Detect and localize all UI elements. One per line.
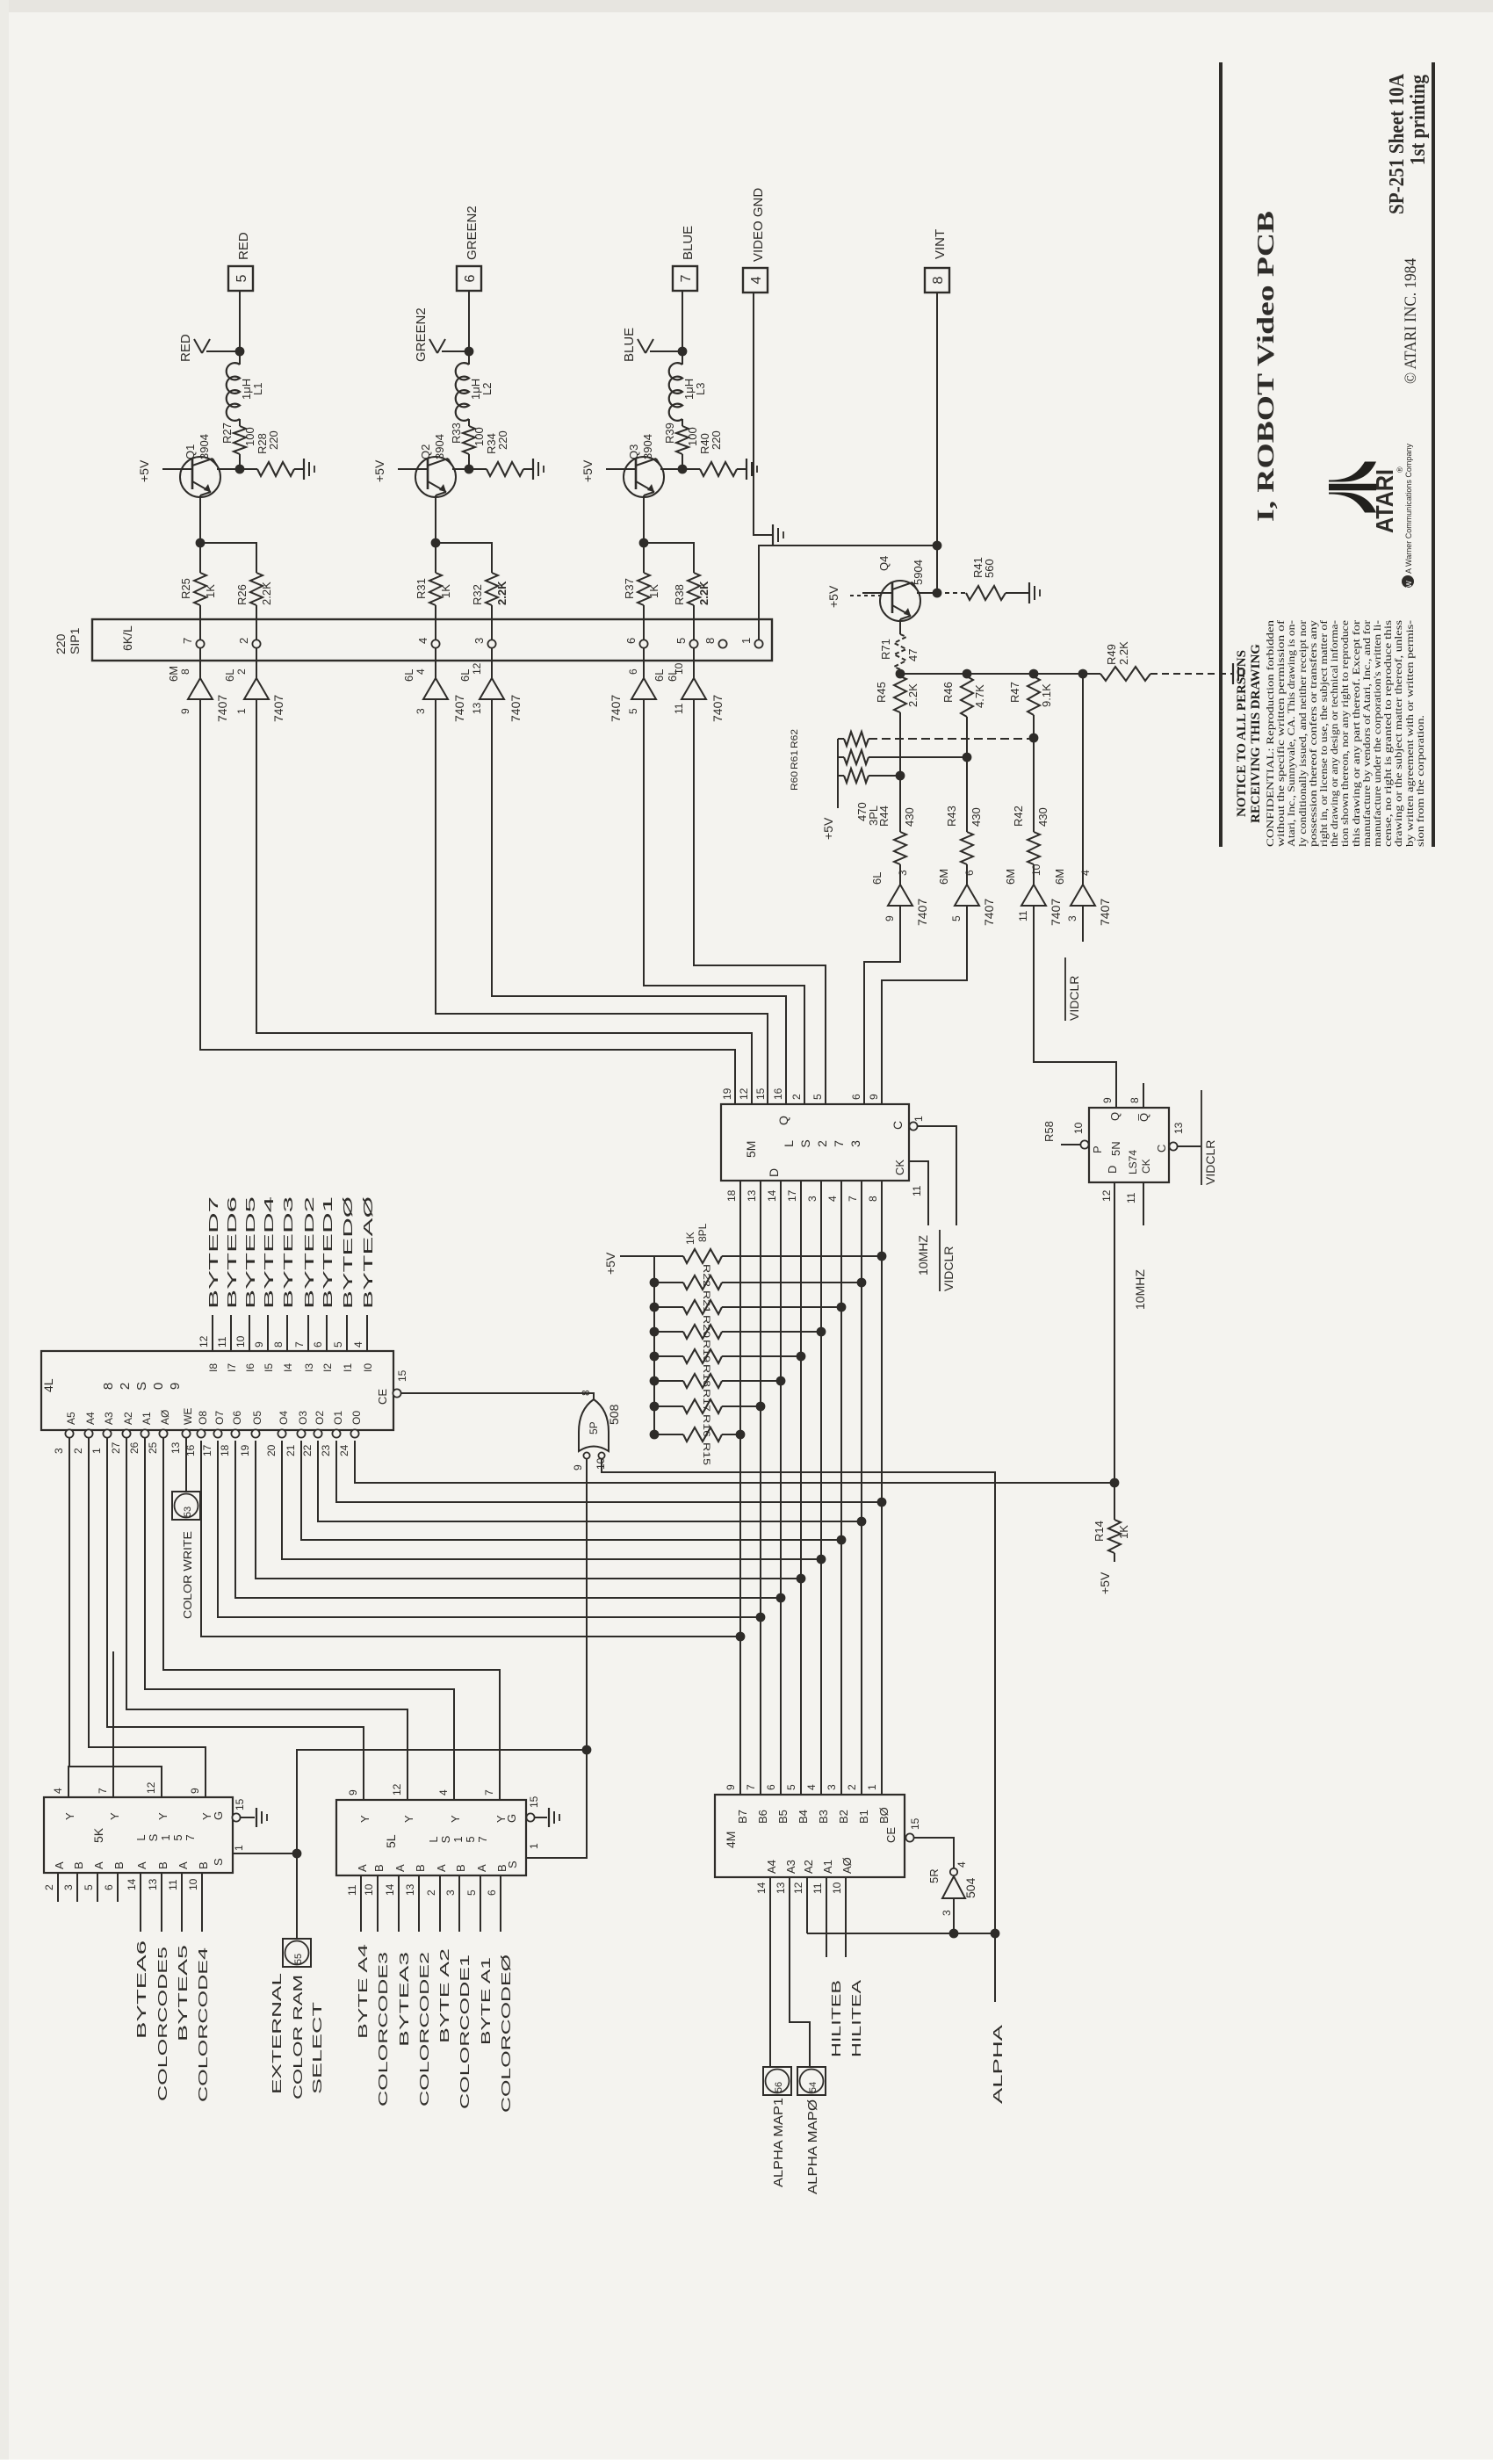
svg-text:5904: 5904	[912, 560, 925, 585]
svg-text:1K: 1K	[204, 584, 217, 598]
resistor R39 100	[682, 419, 683, 426]
svg-text:BYTED6: BYTED6	[225, 1196, 240, 1309]
svg-text:R39: R39	[663, 423, 676, 444]
svg-text:8: 8	[931, 276, 946, 284]
pin 16 82S09 output	[197, 1429, 205, 1437]
svg-text:15: 15	[909, 1817, 921, 1830]
svg-text:D: D	[767, 1168, 781, 1177]
svg-text:10: 10	[831, 1882, 843, 1894]
wire R15 to data line	[722, 1434, 740, 1435]
svg-text:R49: R49	[1105, 644, 1118, 665]
multiplexer 5K LS157	[44, 1797, 233, 1873]
svg-text:24: 24	[338, 1444, 350, 1456]
buffer 6L 7407 (pins 10/11)	[693, 661, 695, 678]
wire +5V bus	[653, 1256, 655, 1434]
connector box 5 (RED)	[228, 266, 253, 291]
svg-text:100: 100	[243, 427, 256, 446]
wire 82S09 pin 20 data line	[282, 1441, 821, 1559]
svg-text:2: 2	[790, 1094, 803, 1100]
svg-text:manufacture under the corporat: manufacture under the corporation's writ…	[1373, 620, 1383, 847]
wire A3 to 5L Y9	[107, 1438, 364, 1800]
svg-text:8: 8	[272, 1341, 285, 1348]
wire HILITEB	[826, 1877, 827, 1957]
svg-text:7: 7	[181, 638, 194, 644]
svg-text:5: 5	[811, 1094, 824, 1100]
svg-text:without the specific writte: without the specific written permission …	[1276, 620, 1287, 847]
svg-text:4L: 4L	[41, 1378, 55, 1392]
svg-text:12: 12	[145, 1781, 157, 1794]
svg-text:12: 12	[1100, 1189, 1113, 1202]
svg-text:O5: O5	[251, 1411, 263, 1425]
buffer 6M 7407 (pins 4/3)	[1071, 885, 1095, 906]
wire A4 to 5K Y9	[89, 1438, 206, 1797]
node rail R46	[963, 669, 972, 679]
pin 21 82S09 output	[297, 1429, 305, 1437]
svg-text:3: 3	[806, 1196, 819, 1202]
wire 6M input to LS273 pin	[200, 699, 735, 1104]
svg-text:R37: R37	[623, 578, 636, 599]
svg-text:A5: A5	[65, 1412, 77, 1425]
svg-text:A: A	[92, 1861, 105, 1869]
wire 6L input to LS273 pin	[492, 699, 786, 1104]
svg-text:1: 1	[159, 1834, 172, 1840]
svg-text:6: 6	[963, 870, 976, 876]
svg-text:7: 7	[184, 1834, 197, 1840]
buffer 6M 7407 (pins 6/5)	[955, 885, 979, 906]
svg-text:7: 7	[745, 1784, 757, 1790]
svg-text:23: 23	[320, 1444, 332, 1456]
svg-text:O2: O2	[314, 1411, 326, 1425]
svg-text:COLORCODEØ: COLORCODEØ	[499, 1954, 514, 2113]
svg-text:Y: Y	[108, 1812, 121, 1820]
svg-text:1K: 1K	[439, 584, 452, 598]
svg-text:13: 13	[404, 1883, 416, 1896]
svg-text:S: S	[147, 1833, 160, 1841]
svg-text:14: 14	[766, 1189, 778, 1202]
svg-text:B3: B3	[817, 1810, 830, 1824]
svg-text:S: S	[134, 1382, 149, 1391]
svg-text:B1: B1	[857, 1810, 870, 1824]
svg-text:10: 10	[1030, 863, 1042, 876]
svg-text:8: 8	[867, 1196, 879, 1202]
net label VIDCLR	[939, 1230, 941, 1291]
ground	[1232, 663, 1234, 684]
wire R22 to data line	[722, 1255, 882, 1257]
wire 508 out to CE	[401, 1393, 594, 1399]
svg-text:17: 17	[786, 1189, 798, 1202]
wire rail to 6M pin4	[1082, 674, 1084, 885]
svg-text:14: 14	[126, 1878, 138, 1890]
svg-text:Y: Y	[63, 1812, 76, 1820]
pin 26 82S09 A1	[141, 1429, 148, 1437]
svg-text:12: 12	[391, 1783, 403, 1796]
svg-text:3: 3	[472, 638, 486, 644]
wire 82S09 pin 19 data line	[256, 1441, 801, 1579]
resistor R20 1K	[650, 1303, 660, 1312]
wire 6L input to LS273 pin	[436, 699, 768, 1104]
svg-text:Q: Q	[1108, 1112, 1122, 1121]
svg-text:6L: 6L	[653, 669, 666, 682]
svg-text:Q4: Q4	[877, 556, 891, 571]
svg-text:7: 7	[679, 274, 694, 282]
svg-text:5L: 5L	[384, 1834, 398, 1848]
svg-text:R38: R38	[673, 584, 686, 605]
svg-text:5M: 5M	[744, 1141, 758, 1158]
svg-text:L2: L2	[480, 383, 494, 395]
node 504 input	[949, 1929, 959, 1939]
resistor R33 100	[468, 419, 470, 426]
svg-text:11: 11	[346, 1884, 358, 1896]
svg-text:HILITEA: HILITEA	[849, 1980, 864, 2057]
resistor R25 1K	[199, 543, 201, 573]
PROM 4M	[715, 1795, 905, 1877]
svg-text:+5V: +5V	[603, 1252, 617, 1275]
resistor R17 1K	[650, 1377, 660, 1386]
svg-text:SIP1: SIP1	[68, 627, 82, 654]
node select	[582, 1745, 592, 1755]
svg-text:S: S	[506, 1861, 519, 1868]
svg-text:18: 18	[219, 1444, 231, 1456]
pin 2 82S09 A4	[84, 1429, 92, 1437]
svg-text:100: 100	[686, 427, 699, 446]
pin 8 82S09 I4 (BYTED3)	[286, 1315, 288, 1351]
svg-text:I0: I0	[362, 1363, 374, 1372]
svg-text:1: 1	[233, 1845, 245, 1851]
wire 82S09 pin 24 data line	[355, 1441, 1114, 1483]
pin 12 82S09 I8 (BYTED7)	[212, 1315, 213, 1351]
svg-text:560: 560	[983, 559, 996, 578]
svg-text:BYTEA6: BYTEA6	[134, 1940, 149, 2039]
pad 56 ALPHA MAP1	[763, 2067, 791, 2095]
svg-text:SELECT: SELECT	[310, 2002, 325, 2094]
svg-text:R25: R25	[179, 578, 192, 599]
wire R21 to data line	[722, 1282, 862, 1283]
node RED	[235, 347, 245, 357]
pin 1 82S09 A3	[103, 1429, 111, 1437]
svg-text:I5: I5	[263, 1363, 275, 1372]
transistor Q2 3904	[415, 457, 456, 497]
resistor R60	[844, 769, 869, 783]
svg-text:ALPHA MAP1: ALPHA MAP1	[771, 2098, 786, 2187]
wire 504 input	[953, 1898, 955, 1933]
svg-text:6K/L: 6K/L	[120, 625, 134, 651]
svg-text:3: 3	[444, 1890, 457, 1896]
svg-text:B5: B5	[776, 1810, 790, 1824]
pin 7 SIP1	[196, 639, 204, 647]
wire CLR to VIDCLR	[918, 1126, 956, 1225]
pin 20 82S09 output	[278, 1429, 285, 1437]
multiplexer 5L LS157	[336, 1800, 526, 1875]
svg-text:18: 18	[725, 1189, 738, 1202]
svg-text:2: 2	[235, 668, 248, 675]
svg-text:A: A	[435, 1864, 448, 1872]
wire 508 pin10 ALPHA	[602, 1459, 995, 2002]
svg-text:W: W	[1405, 581, 1413, 588]
svg-text:BYTED3: BYTED3	[281, 1196, 296, 1309]
wire A1 to 5L Y4	[145, 1438, 454, 1800]
svg-text:manufacture by vendors of Atar: manufacture by vendors of Atari, Inc., a…	[1362, 620, 1373, 847]
wire R16 to data line	[722, 1405, 761, 1407]
pin 11 82S09 I7 (BYTED6)	[230, 1315, 232, 1351]
svg-text:1: 1	[235, 708, 248, 714]
svg-text:5: 5	[464, 1836, 477, 1842]
wire 6M pin3 VIDCLR stub	[1082, 906, 1084, 942]
svg-text:9: 9	[572, 1464, 584, 1470]
transistor Q4 5904	[880, 581, 920, 621]
svg-text:6L: 6L	[870, 872, 884, 885]
svg-text:R62: R62	[790, 729, 800, 748]
pin 2 SIP1	[252, 639, 260, 647]
svg-text:CE: CE	[376, 1389, 389, 1405]
svg-text:A4: A4	[765, 1860, 778, 1874]
node Q3 emitter	[639, 538, 649, 548]
svg-text:BYTE A2: BYTE A2	[437, 1948, 452, 2043]
resistor R43 430	[966, 757, 968, 832]
pin 24 82S09 output	[350, 1429, 358, 1437]
svg-text:1K: 1K	[1117, 1525, 1130, 1539]
svg-text:7: 7	[483, 1789, 495, 1796]
svg-text:L3: L3	[694, 383, 707, 395]
svg-text:BYTEDØ: BYTEDØ	[341, 1196, 356, 1309]
svg-text:11: 11	[911, 1185, 923, 1196]
svg-text:9: 9	[884, 915, 896, 921]
pin 15 82S09 CE	[393, 1389, 400, 1397]
svg-text:9: 9	[1101, 1097, 1114, 1103]
svg-text:8: 8	[179, 668, 191, 675]
svg-text:AØ: AØ	[840, 1857, 854, 1874]
svg-text:Q̅: Q̅	[1137, 1113, 1150, 1122]
wire R17 to data line	[722, 1380, 781, 1382]
svg-text:7407: 7407	[1098, 899, 1112, 926]
node R60 junction	[896, 771, 905, 781]
svg-text:ly conditionally issued, and n: ly conditionally issued, and neither rec…	[1298, 620, 1309, 847]
svg-text:220: 220	[496, 430, 509, 450]
resistor R28 220	[257, 462, 294, 476]
svg-text:O0: O0	[350, 1411, 363, 1425]
ground	[1028, 582, 1030, 603]
svg-text:7: 7	[476, 1836, 489, 1842]
pin 8 LS273 / data bus vertical	[881, 1181, 883, 1795]
svg-text:5N: 5N	[1109, 1141, 1122, 1156]
svg-text:2.2K: 2.2K	[260, 582, 273, 605]
svg-text:1: 1	[528, 1843, 540, 1849]
svg-text:R14: R14	[1093, 1521, 1106, 1542]
svg-text:3: 3	[848, 1140, 862, 1147]
buffer 6M 7407 (pins 10/11)	[1021, 885, 1046, 906]
svg-text:7407: 7407	[508, 695, 523, 722]
pin 5 82S09 I1 (BYTEDØ)	[346, 1315, 348, 1351]
svg-text:Q3: Q3	[627, 444, 640, 459]
svg-text:6L: 6L	[402, 669, 415, 682]
pin 8 SIP1	[718, 639, 726, 647]
svg-text:6M: 6M	[1053, 869, 1066, 885]
node Q4 collector	[933, 589, 942, 598]
resistor R41 560	[937, 592, 966, 594]
svg-text:C: C	[1155, 1145, 1168, 1153]
svg-text:A: A	[135, 1861, 148, 1869]
svg-text:430: 430	[903, 807, 916, 827]
transistor Q1 3904	[180, 457, 220, 497]
svg-text:VIDCLR: VIDCLR	[1203, 1140, 1217, 1185]
svg-text:SP-251 Sheet 10A: SP-251 Sheet 10A	[1386, 73, 1409, 214]
svg-text:2: 2	[846, 1784, 858, 1790]
signal arrow RED	[206, 350, 240, 352]
svg-text:I1: I1	[342, 1363, 354, 1372]
wire RED output	[239, 291, 241, 351]
resistor R40 220	[700, 462, 737, 476]
svg-text:B4: B4	[797, 1810, 810, 1824]
resistor R34 220	[487, 462, 523, 476]
svg-text:6M: 6M	[937, 869, 950, 885]
svg-text:CE: CE	[884, 1827, 898, 1843]
svg-text:+5V: +5V	[821, 817, 835, 840]
wire CK to 10MHZ	[909, 1161, 928, 1225]
svg-text:BØ: BØ	[877, 1807, 891, 1824]
svg-text:2: 2	[815, 1140, 829, 1147]
svg-text:7407: 7407	[609, 695, 623, 722]
svg-text:3904: 3904	[641, 434, 654, 459]
wire 82S09 pin 21 data line	[301, 1441, 841, 1540]
pin 7 82S09 I3 (BYTED2)	[307, 1315, 309, 1351]
RAM 4L 82S09	[41, 1351, 393, 1430]
svg-text:BYTEAØ: BYTEAØ	[361, 1196, 376, 1309]
svg-text:RED: RED	[178, 334, 193, 362]
wire 6M pin5 to LS273 pin9	[882, 906, 967, 1104]
svg-text:Y: Y	[156, 1812, 169, 1820]
svg-text:R45: R45	[875, 682, 888, 703]
svg-text:BYTE A1: BYTE A1	[479, 1957, 494, 2045]
svg-text:+5V: +5V	[1098, 1572, 1112, 1594]
svg-text:A: A	[177, 1861, 190, 1869]
pin 10 LS74 P / R58	[1080, 1140, 1088, 1148]
svg-text:7: 7	[97, 1788, 109, 1794]
gate 5P 508	[579, 1399, 609, 1451]
pin 13 LS273 / data bus vertical	[760, 1181, 761, 1795]
svg-text:L: L	[782, 1140, 796, 1147]
pin 18 82S09 output	[231, 1429, 239, 1437]
resistor R47 9.1K	[1028, 676, 1040, 715]
svg-text:9: 9	[168, 1383, 183, 1390]
node Q1 collector	[235, 465, 245, 474]
node R61 junction	[963, 753, 972, 762]
svg-text:6L: 6L	[458, 669, 472, 682]
svg-text:25: 25	[147, 1442, 159, 1454]
svg-text:possession thereof confers: possession thereof confers or transfers …	[1309, 619, 1319, 847]
svg-text:15: 15	[754, 1087, 767, 1100]
pin 6 SIP1	[639, 639, 647, 647]
inductor L1 1uH	[239, 351, 241, 365]
svg-text:BYTEA3: BYTEA3	[397, 1952, 412, 2047]
svg-text:BYTE A4: BYTE A4	[356, 1944, 371, 2039]
inductor L3 1uH	[682, 351, 683, 365]
svg-text:R71: R71	[879, 639, 892, 660]
buffer 6L 7407 (pins 12/13)	[491, 661, 493, 678]
net label VIDCLR	[1064, 957, 1066, 1021]
wire select to 5K S	[233, 1853, 297, 1854]
svg-text:RECEIVING THIS DRAWING: RECEIVING THIS DRAWING	[1249, 644, 1263, 823]
pin 22 82S09 output	[314, 1429, 321, 1437]
wire A5 jog to 5K Y12	[69, 1767, 162, 1797]
svg-text:5R: 5R	[927, 1868, 941, 1883]
buffer 6L 7407 (pins 2/1)	[256, 661, 257, 678]
svg-text:© ATARI INC. 1984: © ATARI INC. 1984	[1402, 258, 1420, 384]
svg-text:6L: 6L	[223, 669, 236, 682]
wire HILITEA	[845, 1877, 847, 1957]
wire 6M pin11 to LS74 pin9	[1034, 906, 1116, 1108]
node rail R45	[896, 669, 905, 679]
svg-text:4.7K: 4.7K	[973, 684, 986, 708]
svg-text:LS74: LS74	[1127, 1150, 1139, 1174]
wire VINT	[936, 293, 938, 593]
svg-text:1: 1	[912, 1116, 925, 1122]
resistor R62	[844, 732, 869, 746]
svg-text:R27: R27	[220, 423, 234, 444]
node GREEN2	[465, 347, 474, 357]
svg-text:A3: A3	[784, 1860, 797, 1874]
svg-text:Q: Q	[776, 1116, 790, 1125]
svg-text:BYTEA5: BYTEA5	[176, 1945, 191, 2041]
svg-text:EXTERNAL: EXTERNAL	[270, 1973, 285, 2094]
svg-text:B: B	[414, 1864, 427, 1872]
inverter 5R 504	[942, 1876, 965, 1898]
svg-text:21: 21	[285, 1444, 297, 1456]
resistor R19 1K	[650, 1327, 660, 1337]
svg-text:16: 16	[772, 1087, 784, 1100]
svg-text:B: B	[372, 1864, 386, 1872]
svg-text:508: 508	[607, 1404, 621, 1425]
resistor R16 1K	[650, 1402, 660, 1412]
svg-text:this drawing or any part: this drawing or any part thereof. Except…	[1352, 620, 1362, 847]
svg-text:10MHZ: 10MHZ	[916, 1235, 930, 1275]
buffer 6L 7407 (pins 4/3)	[435, 661, 436, 678]
connector box 6 (GREEN2)	[457, 266, 481, 291]
svg-text:5: 5	[950, 915, 963, 921]
svg-text:6: 6	[765, 1784, 777, 1790]
svg-text:2: 2	[425, 1890, 437, 1896]
pin 14 LS273 / data bus vertical	[780, 1181, 782, 1795]
svg-text:S: S	[212, 1858, 225, 1866]
signal arrow GREEN2	[442, 350, 469, 352]
title block rule lower	[1432, 62, 1435, 847]
svg-text:26: 26	[128, 1442, 141, 1454]
svg-text:I3: I3	[303, 1363, 315, 1372]
buffer 6M 7407 (pins 8/9)	[199, 661, 201, 678]
svg-text:53: 53	[183, 1507, 193, 1517]
svg-text:2.2K: 2.2K	[1117, 641, 1130, 665]
+5V supply to R60-R62	[838, 738, 844, 740]
svg-text:8: 8	[101, 1383, 116, 1390]
svg-text:O3: O3	[297, 1411, 309, 1425]
wire to R38	[644, 543, 694, 573]
svg-text:R43: R43	[945, 806, 958, 827]
svg-text:6: 6	[463, 274, 478, 282]
pin 10 82S09 I6 (BYTED5)	[249, 1315, 250, 1351]
node rail R49	[1078, 669, 1088, 679]
wire 82S09 pin 18 data line	[235, 1441, 781, 1598]
svg-text:7: 7	[293, 1341, 306, 1348]
svg-text:15: 15	[528, 1796, 540, 1808]
resistor R14 1K	[1114, 1483, 1115, 1520]
svg-text:R47: R47	[1008, 682, 1021, 703]
svg-text:3PL: 3PL	[867, 806, 880, 826]
pin 5 SIP1	[689, 639, 697, 647]
svg-text:4: 4	[956, 1861, 968, 1868]
svg-text:10: 10	[187, 1878, 199, 1890]
svg-text:by written agreement with or w: by written agreement with or written per…	[1405, 620, 1416, 847]
svg-text:A: A	[393, 1864, 407, 1872]
svg-text:I, ROBOT Video PCB: I, ROBOT Video PCB	[1252, 211, 1279, 522]
wire A2 to 5L Y12	[126, 1438, 408, 1800]
